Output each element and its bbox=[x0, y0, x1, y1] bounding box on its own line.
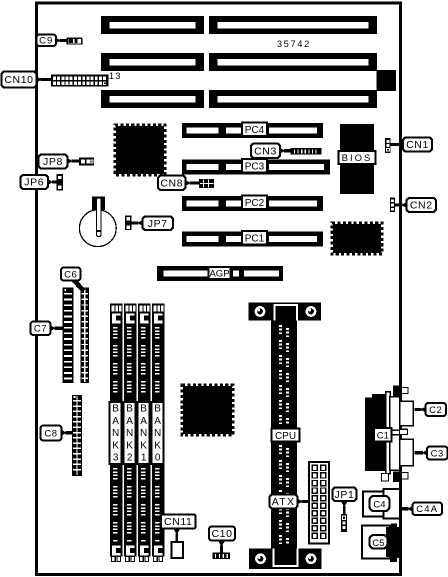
CN8 label box bbox=[158, 176, 186, 191]
top mounting tabs bbox=[393, 386, 401, 397]
ATX label bbox=[297, 498, 310, 504]
BANK 2 label bbox=[124, 402, 136, 464]
C7 label box bbox=[31, 322, 51, 336]
C1 label bbox=[374, 428, 392, 442]
ATX power connector bbox=[309, 462, 329, 544]
svg-text:0: 0 bbox=[155, 453, 161, 464]
svg-text:K: K bbox=[126, 440, 133, 451]
printer port C1 body bbox=[365, 394, 390, 471]
JP8 label box bbox=[39, 155, 68, 169]
svg-text:N: N bbox=[126, 428, 133, 439]
JP1 label bbox=[340, 501, 348, 515]
svg-text:CN2: CN2 bbox=[410, 200, 433, 212]
svg-text:B: B bbox=[140, 404, 147, 415]
C8 label bbox=[61, 430, 73, 436]
C4 label bbox=[370, 496, 390, 511]
svg-text:K: K bbox=[154, 440, 161, 451]
jumper JP7 component bbox=[125, 215, 131, 230]
connector C2 (COM/VGA) bbox=[390, 397, 414, 431]
svg-text:C8: C8 bbox=[44, 428, 57, 439]
PCI slot PC3 bbox=[182, 159, 330, 175]
svg-text:ATX: ATX bbox=[272, 496, 296, 508]
CN2 label box bbox=[407, 198, 437, 212]
svg-text:PC2: PC2 bbox=[245, 198, 265, 209]
CN11 label box bbox=[161, 515, 196, 529]
JP7 label bbox=[131, 220, 144, 226]
svg-text:A: A bbox=[140, 416, 147, 427]
C4A label bbox=[401, 506, 413, 512]
CN1 label box bbox=[403, 138, 432, 152]
svg-text:PC3: PC3 bbox=[245, 162, 265, 173]
header CN1 component bbox=[385, 138, 390, 153]
BANK 1 label bbox=[138, 402, 150, 464]
CN1 label bbox=[390, 141, 404, 147]
ISA slot row 2 left segment bbox=[101, 53, 204, 71]
svg-text:C3: C3 bbox=[431, 448, 444, 459]
svg-text:1: 1 bbox=[141, 453, 147, 464]
C7 label bbox=[50, 325, 63, 331]
CPU slot top bracket bbox=[249, 303, 322, 321]
C9 label bbox=[55, 37, 67, 43]
JP6 label box bbox=[21, 175, 49, 189]
C2 label bbox=[415, 406, 427, 412]
JP6 label bbox=[48, 179, 58, 185]
C4A label box bbox=[413, 503, 443, 516]
svg-text:JP6: JP6 bbox=[24, 177, 44, 189]
ISA slot row 2 right segment bbox=[209, 53, 377, 71]
svg-text:C10: C10 bbox=[211, 528, 232, 540]
C2 label box bbox=[426, 403, 447, 416]
svg-text:B: B bbox=[126, 404, 133, 415]
C9 label box bbox=[37, 35, 57, 47]
svg-text:JP1: JP1 bbox=[335, 489, 355, 501]
AGP slot bbox=[157, 266, 283, 281]
header C10 component bbox=[213, 553, 231, 560]
svg-text:AGP: AGP bbox=[209, 268, 229, 279]
JP1 label box bbox=[333, 488, 357, 502]
svg-text:C6: C6 bbox=[64, 269, 77, 280]
BANK 0 label bbox=[152, 402, 164, 464]
DIMM socket BANK 3 bbox=[110, 304, 123, 562]
svg-text:JP7: JP7 bbox=[148, 218, 168, 230]
C10 label box bbox=[209, 527, 235, 541]
svg-text:JP8: JP8 bbox=[43, 156, 63, 168]
svg-text:K: K bbox=[140, 440, 147, 451]
C6 label bbox=[71, 280, 86, 293]
svg-text:C4: C4 bbox=[373, 500, 385, 511]
ISA slot row 1 left segment bbox=[101, 16, 204, 34]
svg-text:PC4: PC4 bbox=[245, 125, 265, 136]
middle tab bbox=[400, 429, 408, 434]
ISA slot row 3 right segment bbox=[209, 90, 377, 108]
connector C5 black body bbox=[385, 524, 402, 563]
svg-text:N: N bbox=[154, 428, 161, 439]
svg-text:A: A bbox=[126, 416, 133, 427]
CN11 label bbox=[173, 528, 181, 542]
connector C8 bar (ladder) bbox=[72, 395, 82, 476]
C8 label box bbox=[41, 426, 62, 441]
chipset U2 (south bridge) bbox=[332, 223, 382, 254]
svg-text:3: 3 bbox=[113, 453, 119, 464]
svg-text:PC1: PC1 bbox=[245, 234, 265, 245]
svg-text:N: N bbox=[140, 428, 147, 439]
header CN3 component bbox=[291, 148, 322, 155]
PCI slot PC4 bbox=[182, 122, 323, 138]
svg-text:35742: 35742 bbox=[277, 39, 311, 49]
svg-text:B: B bbox=[112, 404, 119, 415]
C3 label box bbox=[427, 447, 448, 460]
svg-text:2: 2 bbox=[127, 453, 133, 464]
PCI slot PC1 bbox=[182, 231, 323, 247]
DIMM socket BANK 1 bbox=[138, 304, 151, 562]
C10 label bbox=[218, 540, 226, 553]
svg-text:CN11: CN11 bbox=[164, 516, 192, 528]
capacitor C9 component bbox=[67, 38, 83, 45]
JP7 label box bbox=[143, 217, 174, 231]
ATX label box bbox=[270, 495, 298, 509]
svg-text:CN1: CN1 bbox=[406, 139, 429, 151]
svg-text:C7: C7 bbox=[34, 324, 47, 335]
C5 label bbox=[370, 535, 388, 549]
svg-text:CN10: CN10 bbox=[4, 74, 33, 86]
svg-text:CPU: CPU bbox=[275, 431, 296, 442]
svg-text:BIOS: BIOS bbox=[342, 153, 373, 164]
jumper JP6 component bbox=[57, 174, 63, 191]
svg-text:C1: C1 bbox=[377, 430, 389, 441]
svg-text:C5: C5 bbox=[372, 538, 384, 549]
CPU slot body bbox=[271, 321, 297, 549]
connector C3 (COM2) bbox=[390, 435, 414, 471]
bottom mounting tabs bbox=[382, 474, 389, 482]
C3 label bbox=[415, 450, 428, 456]
jumper JP8 component bbox=[79, 158, 94, 166]
svg-text:C2: C2 bbox=[429, 405, 442, 416]
header CN10 component (2x13 pins) bbox=[51, 75, 109, 87]
CPU label bbox=[272, 429, 300, 442]
connector C4 outer bbox=[363, 492, 386, 517]
chipset U1 (north bridge) bbox=[115, 125, 165, 175]
header CN2 component bbox=[390, 198, 395, 213]
jumper JP1 component bbox=[341, 514, 347, 532]
PCI slot PC2 bbox=[182, 195, 323, 211]
C6 label box bbox=[61, 268, 81, 281]
svg-text:13: 13 bbox=[109, 71, 122, 81]
svg-text:C9: C9 bbox=[39, 36, 53, 47]
svg-text:K: K bbox=[112, 440, 119, 451]
DIMM socket BANK 2 bbox=[124, 304, 137, 562]
svg-text:A: A bbox=[154, 416, 161, 427]
ISA slot row 3 left segment bbox=[101, 90, 204, 108]
svg-text:CN3: CN3 bbox=[254, 145, 277, 157]
connector C6 bar (ladder) bbox=[81, 288, 90, 384]
CN3 label bbox=[280, 148, 292, 154]
connector C7 bar (striped) bbox=[63, 288, 74, 384]
svg-text:N: N bbox=[112, 428, 119, 439]
header CN11 component bbox=[172, 542, 184, 558]
JP8 label bbox=[67, 158, 80, 164]
svg-text:CN8: CN8 bbox=[160, 177, 183, 189]
CN2 label bbox=[395, 202, 408, 208]
DIMM socket BANK 0 bbox=[152, 304, 165, 562]
CPU slot bottom bracket bbox=[249, 549, 322, 570]
chip U3 (I/O controller) bbox=[182, 385, 233, 435]
ISA slot row 1 right segment bbox=[209, 16, 377, 34]
svg-text:A: A bbox=[112, 416, 119, 427]
BANK 3 label bbox=[110, 402, 122, 464]
header CN8 component bbox=[199, 179, 214, 188]
CN10 label box bbox=[2, 72, 37, 88]
CN8 label bbox=[185, 180, 200, 186]
small chip (keyboard controller) bbox=[377, 70, 397, 91]
battery BT1 bbox=[79, 197, 116, 247]
connector C5 outer bbox=[362, 526, 390, 559]
CN10 label bbox=[36, 76, 52, 83]
bracket strip bbox=[386, 392, 391, 474]
svg-text:C4A: C4A bbox=[416, 504, 438, 515]
svg-text:B: B bbox=[154, 404, 161, 415]
BIOS chip bbox=[339, 124, 376, 194]
CN3 label box bbox=[251, 144, 280, 159]
